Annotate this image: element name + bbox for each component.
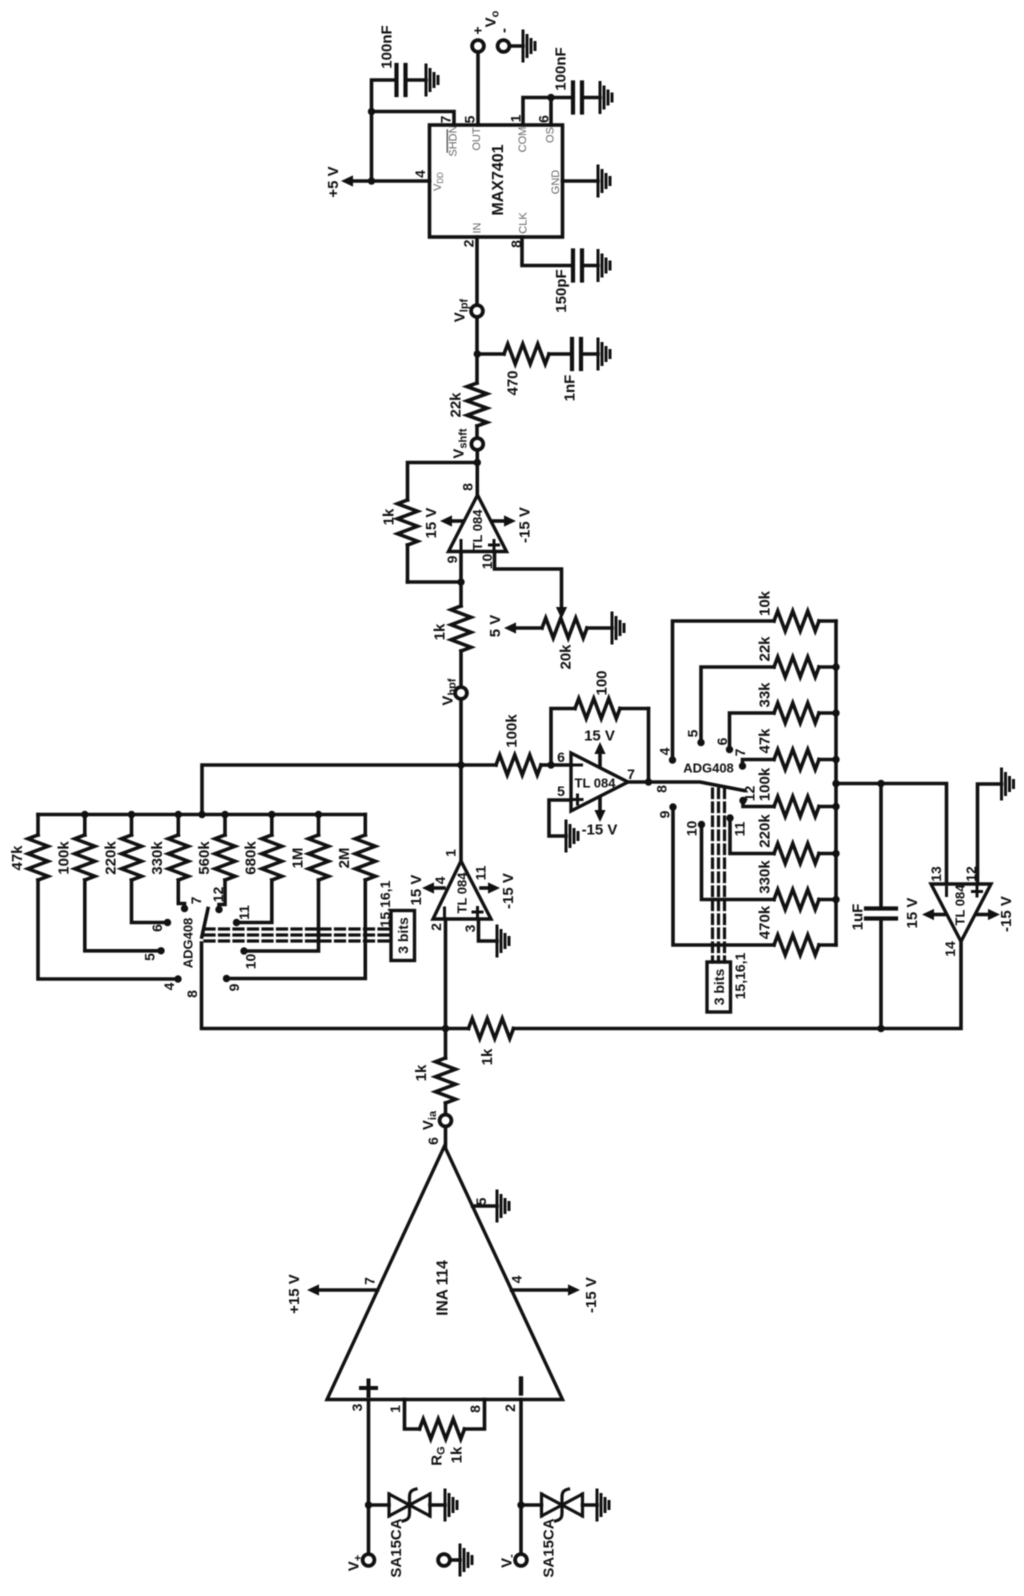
capacitor C3 150pF on CLK — [553, 251, 598, 313]
pin 8 label U4 — [653, 785, 669, 793]
svg-text:47k: 47k — [756, 728, 773, 754]
svg-text:15 V: 15 V — [408, 875, 425, 906]
ground for INA pin5 — [497, 1191, 509, 1221]
svg-text:8: 8 — [184, 990, 200, 998]
pin 1 label INA — [387, 1405, 403, 1413]
3 bits control box U4 — [707, 962, 731, 1012]
svg-text:-: - — [495, 28, 512, 33]
pin 8 CLK wire — [522, 237, 573, 266]
pin 2 IN wire — [475, 237, 479, 304]
supply 15V arrow U6 — [904, 898, 945, 929]
pin 5 wire INA — [473, 1204, 498, 1208]
svg-text:7: 7 — [627, 766, 635, 782]
svg-text:4: 4 — [412, 170, 428, 178]
wire HPF junction to resistor bank — [202, 765, 461, 815]
svg-text:15 V: 15 V — [904, 898, 921, 929]
node COM/OS junction — [547, 94, 554, 101]
ground for C3 — [598, 251, 610, 281]
pin 4 U4 terminal — [656, 747, 676, 763]
svg-text:4: 4 — [656, 747, 672, 755]
resistor 100k HPF bank — [56, 815, 95, 881]
node Via terminal — [420, 1110, 452, 1130]
svg-text:100k: 100k — [756, 767, 773, 801]
svg-text:TL 084: TL 084 — [575, 776, 617, 791]
pin 14 label U6 — [942, 941, 958, 957]
pin 13 label U6 — [928, 866, 944, 882]
wire Vhpf down — [459, 700, 463, 765]
svg-text:13: 13 — [928, 866, 944, 882]
wire 100k to U7 pin5 — [85, 880, 161, 951]
capacitor C2 100nF on COM — [551, 47, 600, 112]
wire feedback right U1 — [647, 709, 651, 783]
pin 5 U7 terminal — [141, 947, 164, 961]
svg-text:11: 11 — [472, 865, 488, 880]
svg-text:6: 6 — [557, 749, 565, 765]
node LPF bus junction — [832, 850, 839, 857]
pin 9 U4 terminal — [656, 803, 676, 818]
pin 1 COM wire — [523, 98, 551, 126]
ground for 20k pot — [612, 613, 624, 643]
pin 3 label U3 — [462, 924, 478, 932]
pin 11 label U3 — [472, 865, 488, 880]
svg-text:33k: 33k — [756, 682, 773, 708]
pin 7 label U1 — [627, 766, 635, 782]
svg-text:8: 8 — [508, 240, 524, 248]
wire U4 pin 5 to 22k — [701, 667, 774, 743]
svg-text:2: 2 — [460, 239, 476, 247]
svg-text:-15 V: -15 V — [500, 873, 517, 909]
node U3 input junction — [442, 1025, 449, 1032]
svg-text:8: 8 — [467, 1405, 483, 1413]
pin 5 U4 terminal — [684, 729, 704, 746]
svg-text:470: 470 — [504, 370, 521, 395]
svg-text:680k: 680k — [243, 841, 260, 875]
wire HPF bank top bus — [38, 813, 365, 817]
svg-text:220k: 220k — [102, 841, 119, 875]
svg-text:1nF: 1nF — [561, 375, 578, 402]
wire U7 common pin8 — [202, 943, 446, 1029]
resistor 560k HPF bank — [196, 815, 235, 881]
resistor 22k — [447, 383, 487, 437]
op-amp A1 INA114 instrumentation amplifier — [327, 1146, 563, 1400]
resistor 1k feedback path — [446, 1019, 514, 1066]
svg-text:100k: 100k — [56, 841, 73, 875]
resistor 47k HPF bank — [9, 815, 48, 881]
svg-text:10: 10 — [479, 554, 495, 570]
node 1uF junction top — [877, 780, 884, 787]
svg-text:11: 11 — [236, 905, 252, 920]
node V+ clamp junction — [365, 1501, 372, 1508]
pin 5 label U1 — [557, 783, 565, 799]
wire HPF junction down to U3 output — [459, 765, 463, 861]
wire 680k to U7 pin11 — [237, 880, 272, 923]
svg-text:10: 10 — [683, 821, 699, 837]
wire U1 output — [628, 780, 649, 784]
op-amp U2 TL084 level shifter — [449, 495, 507, 552]
wire feedback loop U1 — [551, 709, 575, 766]
svg-text:4: 4 — [432, 876, 448, 884]
diode D1 SA15CA — [369, 1489, 446, 1578]
node HPF bus junction — [315, 811, 322, 818]
svg-text:560k: 560k — [196, 841, 213, 875]
svg-text:-15 V: -15 V — [998, 896, 1015, 932]
pin 7 U7 terminal — [181, 896, 204, 912]
svg-text:-15 V: -15 V — [516, 507, 533, 543]
switch lever U7 pin8 to pin12 — [202, 909, 208, 938]
node Vshft terminal — [450, 428, 483, 459]
svg-text:4: 4 — [161, 982, 177, 990]
wire U4 pin 9 to 470k — [673, 807, 774, 945]
svg-text:TL 084: TL 084 — [455, 872, 470, 914]
pin 10 U4 terminal — [683, 821, 705, 837]
wire 330k to U7 pin7 — [178, 880, 184, 909]
node LPF bus junction — [832, 756, 839, 763]
svg-text:3: 3 — [462, 924, 478, 932]
IC U4 ADG408 label — [683, 761, 734, 776]
supply -15V arrow U3 — [481, 873, 517, 909]
op-amp U6 TL084 integrator — [931, 884, 991, 942]
wire U1 pin5 to ground — [549, 800, 571, 836]
wire pin 9 to junction — [459, 552, 463, 583]
svg-text:OS: OS — [544, 127, 556, 143]
resistor 47k LPF bank — [756, 728, 836, 770]
svg-text:7: 7 — [361, 1277, 377, 1285]
switch lever U4 pin8 to pin12 — [649, 782, 745, 791]
resistor 1k series U2 input — [431, 582, 471, 686]
supply -15V arrow U6 — [977, 896, 1015, 932]
svg-text:9: 9 — [656, 810, 672, 818]
svg-text:2M: 2M — [336, 848, 353, 869]
svg-text:8: 8 — [459, 483, 475, 491]
pin 4 label — [412, 170, 428, 178]
pin 6 label U1 — [557, 749, 565, 765]
resistor 100k LPF bank — [756, 767, 836, 816]
3 bits control box U7 — [391, 911, 415, 961]
pin 2 wire INA — [519, 1400, 523, 1555]
pin 11 U7 terminal — [233, 905, 252, 926]
resistor 330k HPF bank — [149, 815, 188, 881]
svg-text:COM: COM — [517, 127, 529, 153]
pin 6 OS wire — [549, 98, 553, 126]
pin 2 label INA — [502, 1404, 518, 1412]
pin 12 label U6 — [963, 866, 979, 882]
pin 7 U4 terminal — [732, 748, 748, 769]
resistor 10k LPF bank — [756, 590, 836, 631]
node U1 inverting junction — [547, 761, 554, 768]
svg-text:3 bits: 3 bits — [711, 969, 727, 1006]
supply 15V arrow U3 — [408, 875, 444, 906]
pin 11 U4 terminal — [726, 814, 747, 836]
resistor 220k HPF bank — [102, 815, 141, 881]
svg-text:3 bits: 3 bits — [395, 917, 411, 954]
resistor 680k HPF bank — [243, 815, 282, 881]
ground for U3 pin3 — [497, 926, 509, 956]
pin 3 wire INA — [367, 1400, 371, 1555]
pin 8 label U2 — [459, 483, 475, 491]
ground for C2 — [600, 83, 612, 113]
node HPF bus junction — [81, 811, 88, 818]
supply 15V arrow U1 — [584, 727, 615, 767]
resistor 470 anti-alias filter — [477, 344, 572, 396]
wire Vlpf to junction — [475, 318, 479, 383]
svg-text:12: 12 — [210, 887, 226, 903]
svg-text:220k: 220k — [756, 814, 773, 848]
svg-text:IN: IN — [471, 222, 483, 233]
wire feedback bottom U2 — [408, 580, 462, 584]
ground for GND pin — [598, 166, 610, 196]
potentiometer 20k — [516, 618, 612, 670]
resistor 330k LPF bank — [756, 860, 836, 910]
pin 6 label — [535, 115, 551, 123]
svg-text:1k: 1k — [380, 508, 397, 525]
svg-text:2: 2 — [428, 923, 444, 931]
terminal V+ — [345, 1554, 374, 1571]
svg-text:150pF: 150pF — [553, 269, 570, 312]
svg-text:47k: 47k — [9, 845, 26, 871]
supply -15V arrow INA — [512, 1277, 600, 1313]
pin 6 label INA — [425, 1137, 441, 1145]
wire U6 output feedback — [514, 942, 962, 1029]
supply +5V arrow — [325, 166, 372, 197]
svg-text:12: 12 — [741, 786, 757, 802]
node Vhpf terminal — [439, 678, 467, 705]
ground for mid terminal — [460, 1545, 472, 1575]
pin 4 Vdd wire — [372, 179, 430, 183]
svg-text:1k: 1k — [479, 1048, 496, 1065]
supply -15V arrow U2 — [492, 507, 533, 543]
svg-text:15,16,1: 15,16,1 — [732, 952, 748, 999]
ground for C1 — [426, 65, 438, 95]
svg-text:20k: 20k — [557, 644, 574, 670]
node LPF bus junction — [832, 780, 839, 787]
pin 6 U7 terminal — [149, 919, 171, 932]
pin 2 label U3 — [428, 923, 444, 931]
wire 1M to U7 pin10 — [244, 880, 319, 951]
node HPF main junction — [457, 761, 464, 768]
pin 8 label INA — [467, 1405, 483, 1413]
svg-text:14: 14 — [942, 941, 958, 957]
pin 4 U7 terminal — [161, 975, 182, 990]
svg-text:OUT: OUT — [471, 127, 483, 151]
resistor 100 feedback U1 — [575, 670, 649, 718]
wire U6 pin12 to ground — [978, 784, 1002, 884]
svg-text:100k: 100k — [503, 714, 520, 748]
svg-text:15 V: 15 V — [584, 727, 615, 744]
node HPF bus junction — [175, 811, 182, 818]
wire LPF output — [836, 784, 947, 885]
capacitor C1 100nF bypass — [372, 25, 427, 111]
wire U4 pin 7 to 47k — [743, 760, 775, 767]
resistor 1k feedback U2 — [380, 500, 417, 582]
wire 47k to U7 pin4 — [38, 880, 178, 979]
svg-text:+15 V: +15 V — [286, 1274, 303, 1314]
pin 10 U7 terminal — [240, 947, 258, 969]
svg-text:22k: 22k — [447, 392, 464, 418]
node HPF bus junction — [268, 811, 275, 818]
supply 15V arrow U2 — [423, 508, 463, 539]
node LPF bus junction — [832, 803, 839, 810]
svg-text:330k: 330k — [756, 860, 773, 894]
svg-text:1k: 1k — [431, 623, 448, 640]
label pins 15,16,1 U7 — [377, 880, 393, 927]
svg-text:6: 6 — [149, 924, 165, 932]
pin GND wire — [563, 179, 599, 183]
svg-text:15,16,1: 15,16,1 — [377, 880, 393, 927]
terminal +Vo — [469, 10, 501, 52]
svg-text:5: 5 — [141, 953, 157, 961]
svg-text:7: 7 — [732, 748, 748, 756]
resistor 1k to Via — [413, 1029, 456, 1114]
svg-text:1: 1 — [387, 1405, 403, 1413]
pin 7 label — [437, 115, 453, 123]
pin 9 label U2 — [444, 555, 460, 563]
svg-text:9: 9 — [444, 555, 460, 563]
svg-text:ADG408: ADG408 — [181, 918, 196, 969]
pin 8 label U7 — [184, 990, 200, 998]
pin 10 label U2 — [479, 554, 495, 570]
pin 5 label INA — [473, 1197, 489, 1205]
ground for U6 pin12 — [1002, 769, 1014, 799]
supply +15V arrow INA — [286, 1274, 378, 1314]
supply 5V arrow — [487, 615, 516, 638]
capacitor 1nF — [561, 339, 598, 401]
wire Vshft to opamp — [475, 451, 479, 495]
node HPF bus junction — [128, 811, 135, 818]
svg-text:CLK: CLK — [517, 212, 529, 234]
svg-text:1k: 1k — [413, 1064, 430, 1081]
wire U3 pin2 down — [444, 919, 448, 1029]
svg-text:SA15CA: SA15CA — [540, 1518, 557, 1577]
node LPF bus junction — [832, 896, 839, 903]
svg-text:5: 5 — [473, 1197, 489, 1205]
svg-text:4: 4 — [508, 1275, 524, 1283]
svg-text:9: 9 — [226, 983, 242, 991]
svg-text:330k: 330k — [149, 841, 166, 875]
IC U7 ADG408 label — [181, 918, 196, 969]
pin 12 U7 terminal — [210, 887, 226, 914]
node Vdd junction upper — [368, 108, 375, 115]
svg-text:5: 5 — [557, 783, 565, 799]
svg-text:SA15CA: SA15CA — [388, 1518, 405, 1577]
node 1uF junction bottom — [877, 1025, 884, 1032]
svg-text:1k: 1k — [448, 1446, 465, 1463]
resistor 220k LPF bank — [756, 814, 836, 864]
svg-text:100: 100 — [593, 670, 610, 695]
resistor 22k LPF bank — [756, 636, 836, 677]
node Vdd junction lower — [368, 177, 375, 184]
pin 6 U4 terminal — [714, 737, 733, 753]
pin 9 U7 terminal — [223, 975, 242, 992]
svg-text:5: 5 — [461, 115, 477, 123]
node U1 output junction — [645, 778, 652, 785]
svg-text:6: 6 — [535, 115, 551, 123]
ground for D1 — [445, 1490, 457, 1520]
wire 220k to U7 pin6 — [132, 880, 168, 923]
control bus dashed U4 — [713, 789, 725, 962]
resistor RG 1k gain set — [405, 1400, 485, 1466]
pin 12 U4 terminal — [739, 786, 757, 805]
wire LPF bus — [834, 621, 838, 945]
svg-text:100nF: 100nF — [378, 25, 395, 68]
node LPF bus junction — [832, 663, 839, 670]
terminal V- — [498, 1554, 527, 1568]
pin 3 label INA — [349, 1403, 365, 1411]
ground for U1 pin5 — [566, 821, 578, 851]
svg-text:8: 8 — [653, 785, 669, 793]
op-amp U3 TL084 HPF stage — [433, 861, 491, 919]
node HPF bus riser junction — [198, 811, 205, 818]
svg-text:-15 V: -15 V — [583, 1277, 600, 1313]
svg-text:6: 6 — [714, 737, 730, 745]
resistor 1M HPF bank — [289, 815, 328, 881]
control bus dashed U7 — [205, 929, 391, 941]
supply -15V arrow U1 — [582, 797, 618, 838]
pin 8 label — [508, 240, 524, 248]
resistor 470k LPF bank — [756, 905, 836, 955]
resistor 100k to U1 input — [461, 714, 551, 775]
wire feedback top U2 — [408, 463, 478, 501]
wire +5V rail vertical — [370, 112, 374, 182]
svg-text:5: 5 — [684, 729, 700, 737]
wire U4 pin 10 to 330k — [702, 825, 775, 900]
label pins 15,16,1 U4 — [732, 952, 748, 999]
node V- clamp junction — [517, 1501, 524, 1508]
wire U4 pin 11 to 220k — [730, 818, 774, 854]
pin 1 label — [507, 114, 523, 122]
svg-text:11: 11 — [731, 821, 747, 836]
svg-text:1: 1 — [442, 849, 458, 857]
svg-text:5 V: 5 V — [487, 615, 504, 638]
svg-text:ADG408: ADG408 — [683, 761, 734, 776]
svg-text:-15 V: -15 V — [582, 821, 618, 838]
svg-text:GND: GND — [550, 170, 562, 195]
wire 560k to U7 pin12 — [219, 880, 225, 910]
svg-text:MAX7401: MAX7401 — [490, 144, 507, 215]
diode D2 SA15CA — [521, 1489, 597, 1578]
pin 7 SHDN wire — [372, 112, 455, 126]
svg-text:10k: 10k — [756, 590, 773, 616]
svg-text:2: 2 — [502, 1404, 518, 1412]
pin 5 OUT wire — [476, 52, 480, 125]
svg-text:1M: 1M — [289, 848, 306, 869]
terminal mid ground — [438, 1554, 460, 1566]
wire Via to INA output — [444, 1128, 448, 1146]
svg-text:470k: 470k — [756, 905, 773, 939]
ground for -Vo — [523, 31, 535, 61]
svg-text:7: 7 — [437, 115, 453, 123]
ground for 1nF — [598, 339, 610, 369]
svg-text:INA 114: INA 114 — [434, 1260, 451, 1316]
node Vlpf terminal — [451, 298, 483, 322]
wire U4 pin 12 to 100k — [743, 801, 774, 807]
svg-text:3: 3 — [349, 1403, 365, 1411]
ground for D2 — [597, 1490, 609, 1520]
terminal -Vo — [495, 28, 523, 52]
wire U4 pin 6 to 33k — [730, 713, 775, 750]
wire U3 pin3 to ground — [479, 919, 498, 941]
wire U4 pin 4 to 10k — [673, 621, 775, 760]
svg-text:10: 10 — [242, 954, 258, 970]
node HPF bus junction — [221, 811, 228, 818]
svg-text:6: 6 — [425, 1137, 441, 1145]
pin 7 label INA — [361, 1277, 377, 1285]
IC U5 MAX7401 body — [430, 125, 563, 237]
pin 5 label — [461, 115, 477, 123]
node U2 inverting junction — [457, 578, 464, 585]
wire U1 pin6 from junction — [551, 763, 571, 767]
resistor 33k LPF bank — [756, 682, 836, 723]
op-amp U1 TL084 gain stage — [571, 753, 628, 811]
